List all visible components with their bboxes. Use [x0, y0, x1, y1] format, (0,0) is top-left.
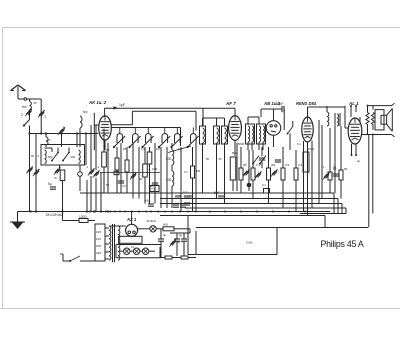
svg-text:0,1: 0,1 — [141, 147, 145, 151]
svg-text:RENS D84: RENS D84 — [296, 101, 317, 106]
svg-text:50: 50 — [150, 184, 153, 188]
svg-text:1μF: 1μF — [119, 103, 125, 107]
svg-text:0,1: 0,1 — [131, 245, 135, 249]
svg-text:0,1: 0,1 — [183, 190, 188, 194]
svg-text:AL 1: AL 1 — [348, 101, 359, 106]
svg-text:100: 100 — [152, 167, 157, 171]
svg-text:WS: WS — [163, 223, 168, 227]
svg-text:7F: 7F — [54, 176, 58, 180]
svg-text:120Ω: 120Ω — [79, 215, 87, 219]
svg-text:25: 25 — [123, 147, 127, 151]
svg-text:1M: 1M — [196, 169, 201, 173]
svg-text:ZC32A: ZC32A — [147, 219, 156, 223]
svg-text:50: 50 — [106, 183, 109, 187]
svg-text:50: 50 — [48, 138, 51, 142]
svg-text:0,1: 0,1 — [184, 170, 188, 174]
svg-text:0,1: 0,1 — [262, 183, 266, 187]
svg-text:125: 125 — [96, 230, 101, 234]
svg-text:4μ: 4μ — [179, 233, 183, 237]
svg-text:2M: 2M — [271, 163, 276, 167]
svg-text:220: 220 — [96, 251, 101, 255]
svg-text:0,5: 0,5 — [122, 184, 126, 188]
svg-text:25: 25 — [106, 148, 110, 152]
svg-text:25: 25 — [333, 165, 336, 169]
svg-text:0,3: 0,3 — [298, 163, 303, 167]
svg-text:50: 50 — [344, 167, 348, 171]
svg-text:5μ: 5μ — [48, 182, 52, 186]
svg-text:30: 30 — [177, 240, 181, 244]
svg-text:500: 500 — [48, 155, 53, 159]
svg-text:Df=128 kHz: Df=128 kHz — [46, 213, 63, 217]
svg-text:50: 50 — [243, 163, 247, 167]
svg-text:145: 145 — [96, 237, 101, 241]
svg-text:2: 2 — [21, 113, 23, 117]
svg-text:4μ: 4μ — [163, 233, 167, 237]
svg-text:50: 50 — [34, 101, 37, 105]
svg-text:0,1: 0,1 — [297, 142, 301, 146]
svg-text:50: 50 — [31, 154, 34, 158]
svg-text:0·M2: 0·M2 — [246, 241, 253, 245]
svg-text:5μF: 5μF — [214, 191, 220, 195]
svg-text:+5: +5 — [145, 199, 149, 203]
svg-text:AK 1u. 2: AK 1u. 2 — [88, 100, 107, 105]
svg-text:2: 2 — [45, 115, 47, 119]
svg-text:50: 50 — [219, 157, 222, 161]
svg-text:5000: 5000 — [238, 142, 244, 146]
svg-text:0,2: 0,2 — [178, 147, 182, 151]
svg-text:500: 500 — [83, 110, 88, 114]
svg-text:200: 200 — [96, 244, 101, 248]
svg-text:0,5: 0,5 — [285, 163, 290, 167]
svg-text:AF 7: AF 7 — [225, 101, 236, 106]
svg-text:500: 500 — [22, 105, 27, 109]
svg-text:500: 500 — [71, 155, 76, 159]
svg-text:50: 50 — [206, 157, 209, 161]
svg-text:50pF: 50pF — [276, 102, 283, 106]
svg-text:4μ: 4μ — [357, 159, 360, 163]
svg-text:Philips 45 A: Philips 45 A — [321, 239, 364, 249]
svg-text:1500: 1500 — [308, 147, 315, 151]
svg-text:50: 50 — [139, 177, 143, 181]
